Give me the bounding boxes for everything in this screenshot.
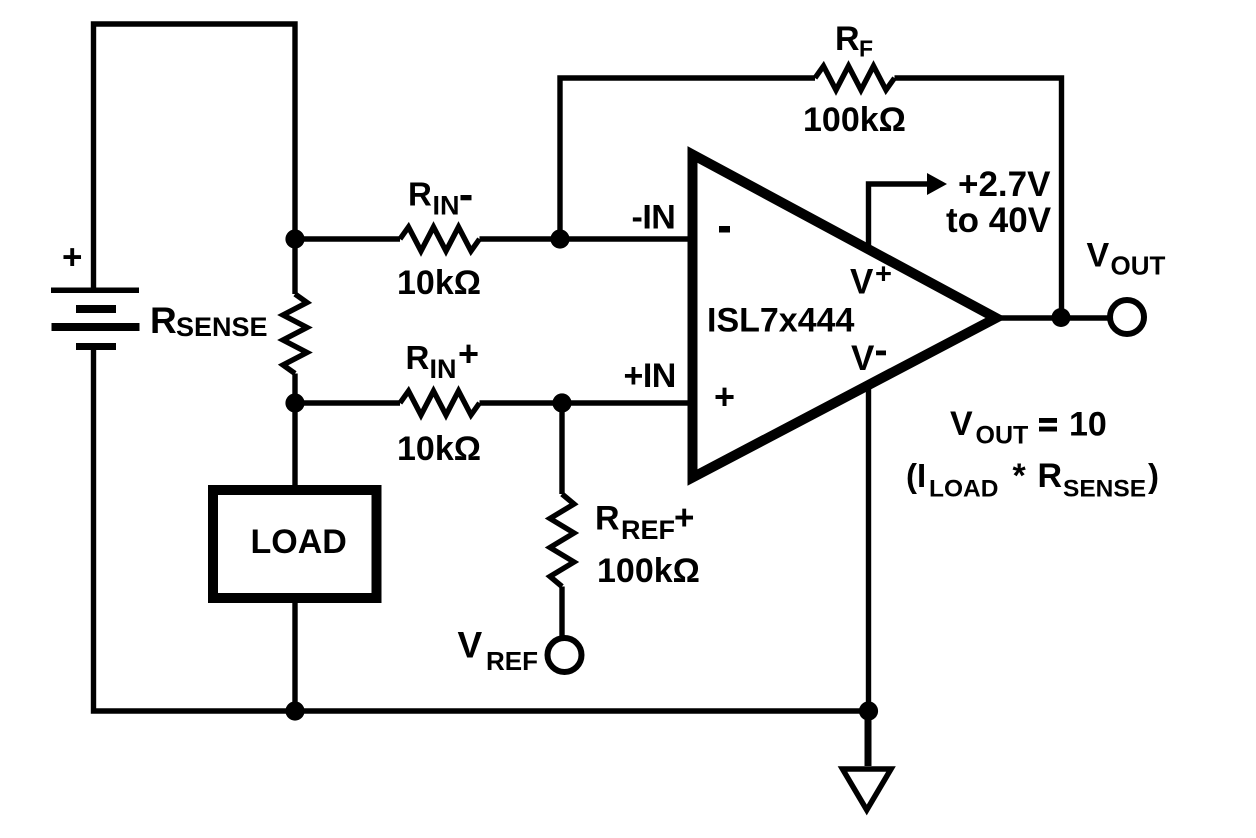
svg-text:SENSE: SENSE [1063,476,1146,503]
svg-text:V: V [1087,237,1110,275]
svg-text:V: V [950,405,973,443]
svg-text:IN: IN [433,191,460,221]
svg-text:R: R [150,300,177,341]
svg-text:SENSE: SENSE [176,312,268,342]
svg-text:REF: REF [486,646,538,676]
svg-text:10kΩ: 10kΩ [397,264,481,302]
svg-text:-IN: -IN [632,199,676,237]
svg-text:REF: REF [621,515,675,545]
svg-text:+: + [674,499,694,538]
svg-text:F: F [859,36,873,62]
svg-text:+: + [714,376,735,417]
svg-text:OUT: OUT [976,422,1029,450]
svg-text:to 40V: to 40V [946,201,1052,240]
svg-text:+: + [875,259,892,291]
svg-text:R: R [1038,457,1063,495]
svg-text:10kΩ: 10kΩ [397,430,481,468]
svg-text:LOAD: LOAD [251,523,347,561]
svg-text:OUT: OUT [1111,251,1166,281]
svg-text:+: + [62,238,82,277]
svg-text:ISL7x444: ISL7x444 [707,302,855,340]
svg-text:100kΩ: 100kΩ [803,101,906,139]
svg-text:V: V [851,339,875,378]
svg-text:*: * [1013,457,1027,495]
svg-text:10: 10 [1069,406,1107,444]
svg-text:R: R [406,339,430,376]
svg-text:LOAD: LOAD [929,476,998,503]
svg-text:+2.7V: +2.7V [958,165,1051,204]
svg-text:V: V [458,625,483,666]
svg-text:R: R [835,20,860,58]
svg-text:+IN: +IN [624,357,676,395]
svg-text:100kΩ: 100kΩ [597,552,700,590]
svg-text:R: R [595,500,620,538]
svg-text:(I: (I [906,457,926,494]
svg-text:V: V [850,263,874,302]
svg-text:R: R [408,176,432,213]
svg-text:): ) [1148,457,1159,494]
svg-text:IN: IN [430,354,457,384]
svg-text:+: + [458,333,479,374]
